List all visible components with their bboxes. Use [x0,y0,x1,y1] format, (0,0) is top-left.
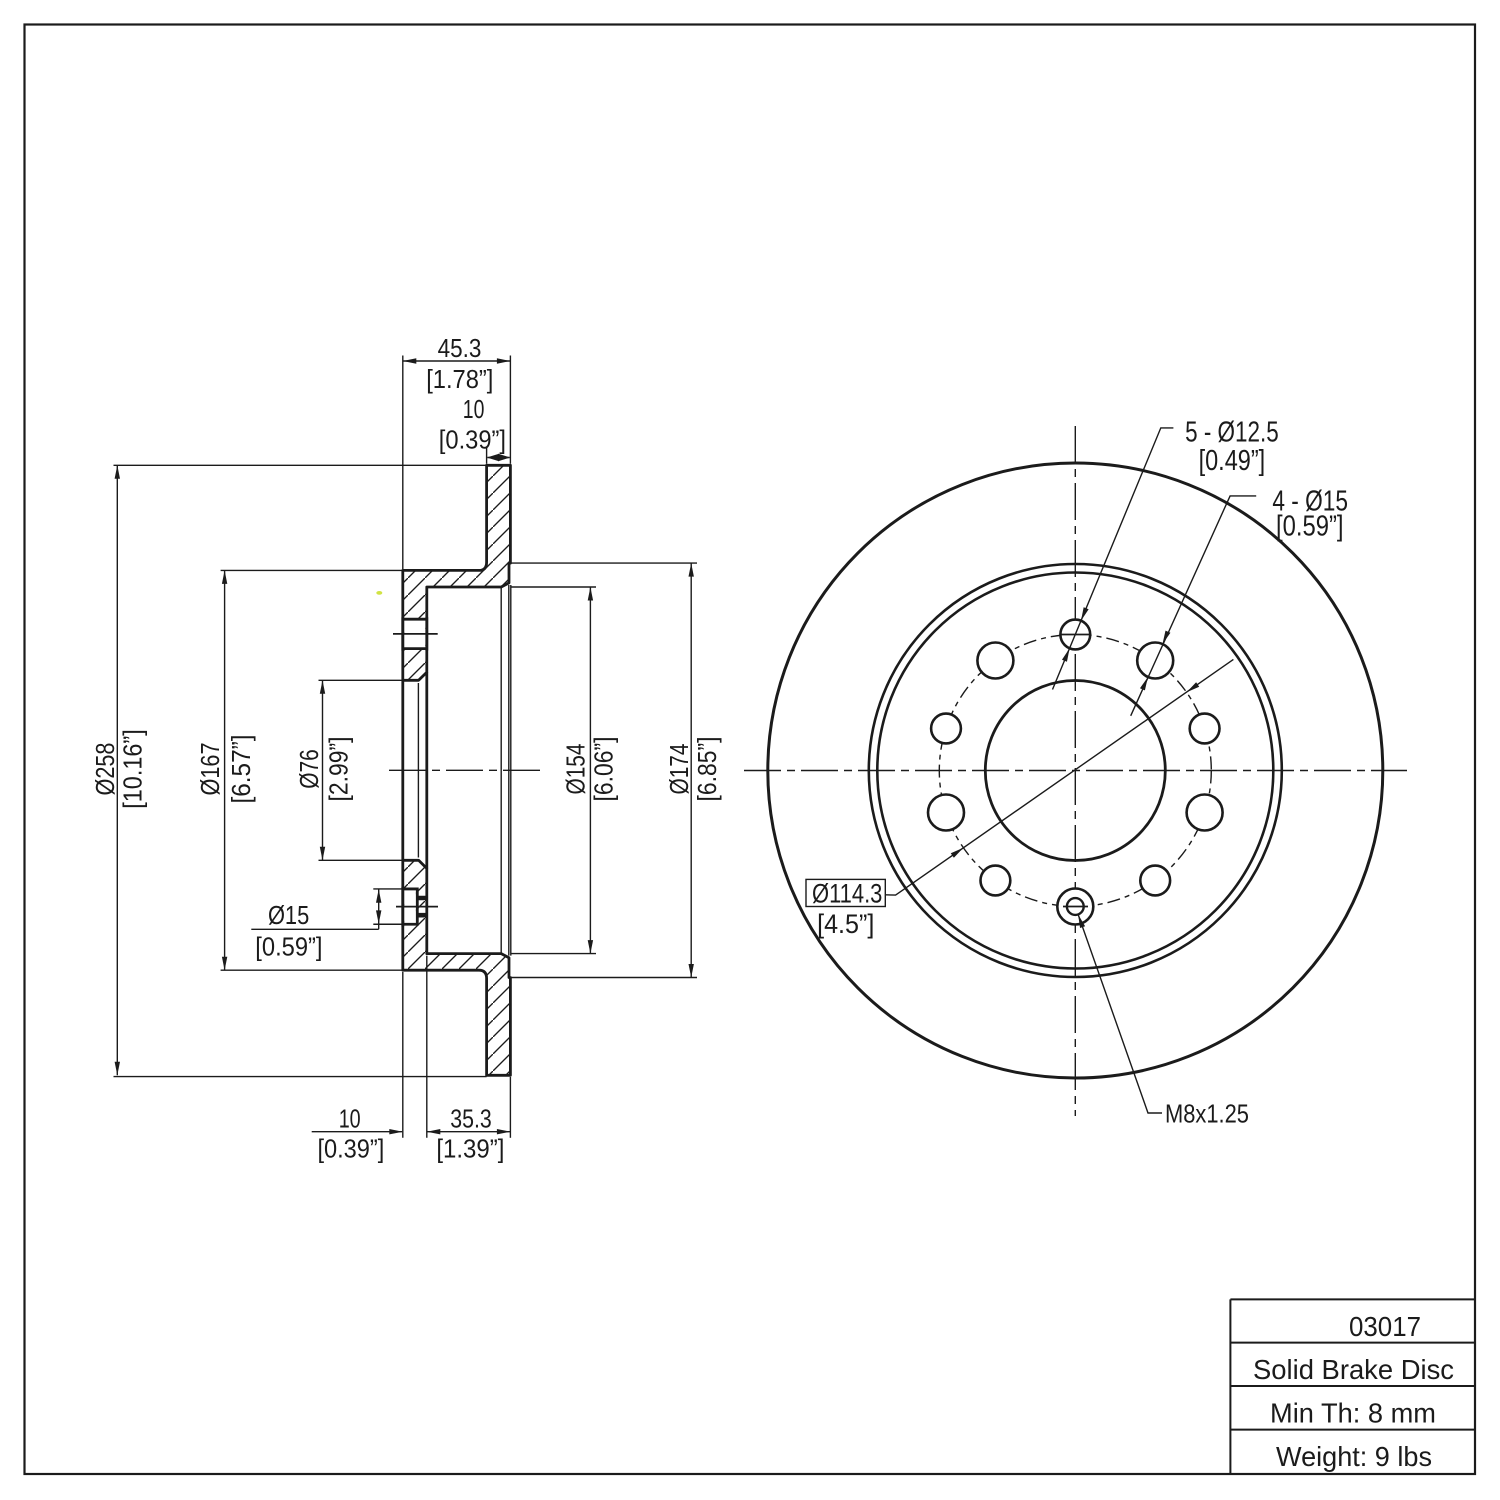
hole 15 at 342 deg [1187,795,1223,831]
svg-text:[0.39”]: [0.39”] [439,426,506,454]
lug bolt hole through mounting wall (upper, 12.5) [404,619,425,648]
svg-text:10: 10 [463,396,485,424]
top hole centerline tick [1062,634,1091,636]
hole 15 at 198 deg [928,795,964,831]
leader for 5-12.5 lug holes [1053,428,1174,690]
outer disc circle 258 [768,463,1383,1078]
dimension 258 with extension lines [114,465,487,1076]
threaded hole M8x1.25 at 270 deg [1057,889,1093,925]
svg-text:[0.39”]: [0.39”] [317,1136,384,1164]
lug hole 12.5 at 306 deg [1140,866,1170,896]
center pilot hole 76 [985,681,1165,861]
svg-text:5 - Ø12.5: 5 - Ø12.5 [1185,416,1279,448]
hole 15 centerline tick [396,906,438,908]
svg-text:Ø154: Ø154 [563,744,591,795]
svg-text:[6.06”]: [6.06”] [591,737,619,802]
section view: upper half of hat-shaped rotor (hatched cut) [403,465,511,680]
svg-text:[6.85”]: [6.85”] [694,737,722,802]
svg-text:10: 10 [339,1105,361,1133]
box around 114.3 [806,879,885,906]
svg-text:Ø167: Ø167 [197,743,225,796]
small diamond arrows for 10 dimension [487,454,511,462]
section view: lower half of hat-shaped rotor (hatched cut) [403,860,511,1075]
svg-text:M8x1.25: M8x1.25 [1165,1098,1249,1128]
bolt circle 114.3 (dashed) [939,635,1211,907]
front view vertical centerline [1074,426,1076,1116]
svg-text:Ø76: Ø76 [296,749,324,789]
dimension 154 with extension lines [512,587,597,954]
svg-text:03017: 03017 [1349,1311,1421,1342]
front view horizontal centerline [744,770,1407,772]
thread marks beyond counterbore [417,898,426,915]
yellow highlighter artifact [376,591,382,595]
lug hole 12.5 at 90 deg [1060,620,1090,650]
svg-text:[6.57”]: [6.57”] [228,735,256,804]
svg-text:[10.16”]: [10.16”] [119,729,147,809]
svg-text:[4.5”]: [4.5”] [817,909,874,939]
title block table [1230,1299,1474,1474]
svg-text:Ø174: Ø174 [666,744,694,795]
bottom hole centerline tick [1063,906,1088,908]
dimension 15 hole leader and small dimension [251,889,405,929]
svg-text:Min Th: 8 mm: Min Th: 8 mm [1270,1398,1436,1429]
leader for 4-15 holes [1131,496,1257,716]
dimension arrowheads [115,358,1200,1134]
dimension 167 with extension lines [221,570,403,970]
dimension 10 disc thickness (top) [487,447,510,464]
hub wall visible edges across center bore [403,672,427,868]
svg-text:Solid Brake Disc: Solid Brake Disc [1253,1354,1454,1385]
svg-text:Weight: 9 lbs: Weight: 9 lbs [1276,1441,1432,1472]
lug hole centerline tick [393,633,438,635]
svg-text:[1.39”]: [1.39”] [436,1136,504,1164]
bore edge thin line [417,683,419,858]
svg-text:Ø114.3: Ø114.3 [812,879,882,909]
hole 15 at 126 deg [977,643,1013,679]
lug hole 12.5 at 18 deg [1190,714,1220,744]
svg-text:[0.59”]: [0.59”] [255,933,322,961]
svg-text:[2.99”]: [2.99”] [326,737,354,802]
counterbore hole 15 in mounting wall (lower) [404,890,416,923]
svg-text:[0.59”]: [0.59”] [1276,510,1344,542]
hat step circle 174 [869,564,1282,977]
lug hole 12.5 at 162 deg [931,714,961,744]
svg-text:Ø15: Ø15 [268,902,309,930]
section view horizontal centerline [389,769,540,771]
svg-text:[0.49”]: [0.49”] [1199,445,1266,477]
svg-text:[1.78”]: [1.78”] [426,366,493,394]
lug hole 12.5 at 234 deg [981,866,1011,896]
dimension 45.3 lines [403,356,511,570]
hat outer circle 167 [877,573,1273,969]
svg-text:45.3: 45.3 [438,335,482,363]
leader for M8x1.25 [1078,914,1162,1113]
cavity visible edge lines [501,585,511,956]
svg-text:Ø258: Ø258 [92,743,120,796]
hole 15 at 54 deg [1137,643,1173,679]
dimension 174 with extension lines [508,563,697,977]
svg-text:35.3: 35.3 [450,1105,492,1133]
bottom dimensions 10 and 35.3 [312,956,511,1138]
dimension 76 with extension lines [319,680,403,860]
bolt circle diameter line 114.3 [885,659,1233,895]
